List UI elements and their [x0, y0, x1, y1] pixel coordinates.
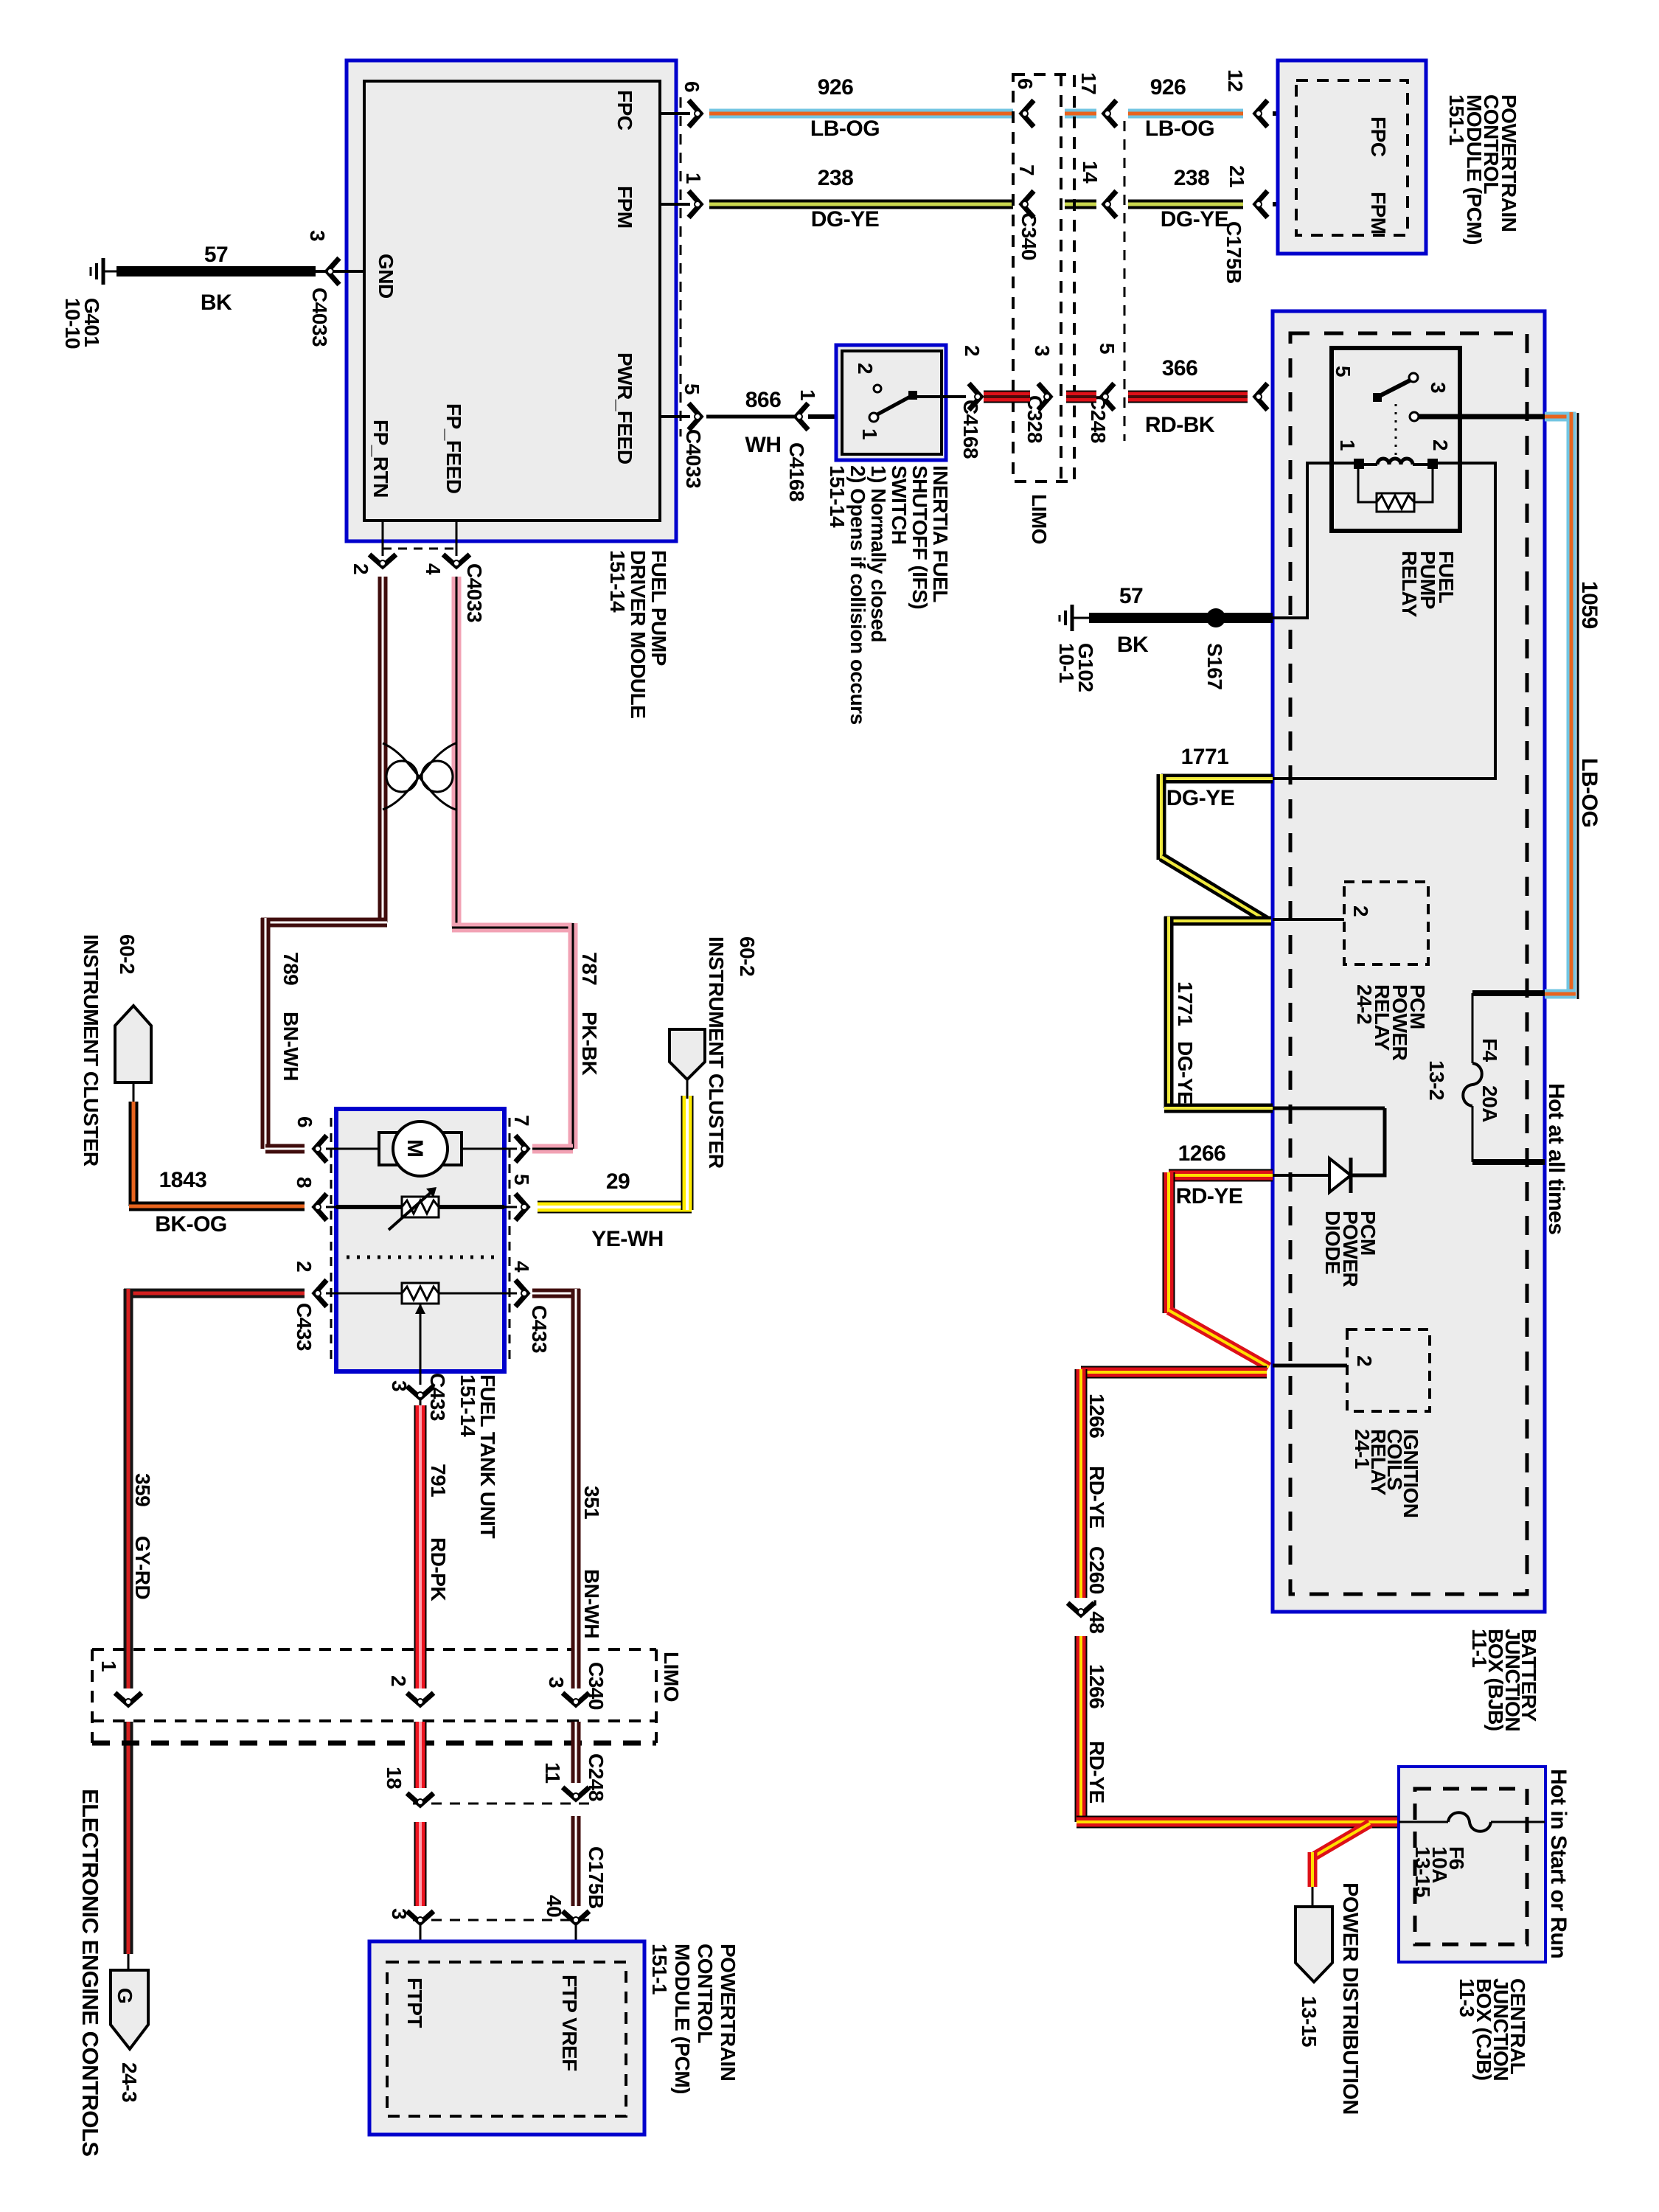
twisted pair symbol [386, 761, 417, 792]
svg-text:4: 4 [510, 1261, 533, 1273]
svg-text:FPM: FPM [1367, 192, 1390, 234]
arrow out of FPC pin 6 [689, 100, 700, 127]
wire 791 stub into PCM [420, 1923, 422, 1964]
svg-text:926: 926 [1150, 75, 1186, 100]
wire 351 horizontal [532, 1289, 580, 1298]
svg-text:Hot in Start or Run: Hot in Start or Run [1546, 1769, 1571, 1958]
svg-text:1: 1 [682, 173, 705, 184]
svg-text:INSTRUMENT CLUSTER: INSTRUMENT CLUSTER [80, 934, 102, 1166]
power distribution off-page connector [1295, 1907, 1332, 1982]
svg-text:57: 57 [1119, 584, 1143, 608]
svg-text:17: 17 [1077, 72, 1100, 94]
wire 791 RD-PK segment 1 [414, 1405, 427, 1688]
arrow at C248 pin 17 (926) [1105, 100, 1116, 127]
wire from relay coil pin2 down [1273, 463, 1495, 779]
C175B mating dashed line (bottom) [413, 1919, 597, 1921]
svg-text:C4033: C4033 [308, 288, 331, 347]
inertia switch inner box [842, 351, 942, 454]
svg-text:RD-PK: RD-PK [427, 1537, 450, 1601]
wire 787 vertical 2 [568, 923, 578, 1149]
arrow 3 C340 (351) [563, 1693, 589, 1705]
svg-text:C4033: C4033 [463, 563, 486, 622]
fuel tank pin 8 arrow [315, 1194, 327, 1220]
arrow 11 C248 (351) [563, 1787, 589, 1799]
wire 926 LB-OG segment 3 [1128, 109, 1243, 119]
svg-text:RD-YE: RD-YE [1085, 1466, 1108, 1528]
fuel pump motor M [393, 1121, 448, 1176]
svg-text:5: 5 [681, 383, 703, 394]
FP_RTN pin wire [382, 521, 384, 556]
svg-text:12: 12 [1224, 69, 1247, 91]
svg-text:C4168: C4168 [785, 442, 808, 501]
relay lever end circle [1409, 373, 1418, 382]
svg-text:13-2: 13-2 [1425, 1060, 1448, 1100]
svg-text:YE-WH: YE-WH [591, 1227, 664, 1251]
svg-text:2: 2 [961, 345, 984, 356]
relay coil [1359, 463, 1377, 466]
wire 1059 LB-OG vertical [1567, 412, 1576, 998]
CJB inner dashed border [1415, 1789, 1527, 1944]
wire 789 corner horizontal [261, 918, 387, 928]
svg-text:INSTRUMENT CLUSTER: INSTRUMENT CLUSTER [705, 936, 728, 1169]
diode anode wire [1273, 1174, 1329, 1177]
switch contact dot [908, 391, 917, 400]
svg-text:6: 6 [293, 1116, 316, 1127]
svg-text:11-3: 11-3 [1455, 1978, 1478, 2017]
wire from arrow to switch [808, 414, 874, 419]
svg-text:60-2: 60-2 [116, 934, 139, 974]
svg-text:FPM: FPM [613, 186, 636, 229]
relay pin 3 circle [1410, 412, 1419, 421]
C433 dashed line right [509, 1118, 511, 1364]
ground G401 symbol [102, 258, 105, 285]
svg-text:C248: C248 [585, 1753, 608, 1801]
wire 1266 horizontal 2 [1081, 1366, 1267, 1379]
LIMO dashed box (bottom) [92, 1649, 656, 1743]
svg-text:PK-BK: PK-BK [578, 1012, 601, 1075]
instrument cluster stem (left) [133, 1082, 135, 1103]
fuel pump motor wire [336, 1148, 504, 1150]
svg-text:5: 5 [510, 1174, 533, 1185]
wire 926 pin stub at FPDM FPC [660, 112, 690, 115]
svg-text:1843: 1843 [159, 1168, 207, 1192]
switch terminal 2 circle [874, 385, 881, 392]
FTP sensor pin 3 wire [420, 1304, 422, 1385]
wire 351 vertical 1 [571, 1289, 581, 1688]
C433 dashed line left [330, 1118, 333, 1364]
svg-text:2: 2 [1353, 1355, 1376, 1366]
C248 mating dashed line [1124, 121, 1126, 441]
svg-text:FPC: FPC [613, 90, 636, 131]
arrow pin 4 C4033 [443, 554, 470, 566]
svg-text:C433: C433 [528, 1305, 551, 1353]
wire 29 YE-WH vertical [681, 1096, 694, 1210]
wire 366 stub in BJB [1273, 396, 1378, 398]
svg-text:1: 1 [1336, 439, 1359, 451]
fuel tank pin 2 arrow [315, 1280, 327, 1307]
instrument cluster off-page connector (right) [669, 1029, 705, 1079]
svg-text:GY-RD: GY-RD [131, 1536, 154, 1599]
arrow 2 C4168 (366) [969, 383, 981, 410]
powertrain control module PCM (bottom) [369, 1941, 644, 2135]
svg-text:DG-YE: DG-YE [1166, 786, 1235, 810]
instrument cluster stem (right) [686, 1078, 689, 1099]
powertrain control module PCM (top) [1278, 60, 1426, 254]
fuse F6 symbol [1399, 1821, 1448, 1823]
FTP sensor wire [336, 1293, 402, 1295]
wire 238 DG-YE segment 3 [1128, 200, 1243, 209]
LIMO dashed box (top) [1013, 74, 1074, 481]
C4033 dashed bracket [383, 548, 456, 550]
svg-text:3: 3 [545, 1677, 568, 1688]
wire 789 vertical 2 [261, 918, 271, 1149]
svg-text:FTPT: FTPT [403, 1978, 426, 2028]
svg-text:1266: 1266 [1178, 1141, 1226, 1166]
wire 866 WH [706, 415, 795, 419]
svg-text:21: 21 [1225, 165, 1248, 187]
wire 926 stub into PCM [1273, 111, 1363, 116]
svg-text:2: 2 [854, 363, 877, 374]
wire 359 vertical 2 [124, 1722, 133, 1954]
wire 791 stub [420, 1398, 422, 1405]
wire 1059 top stub [1545, 412, 1576, 422]
wire 351 vertical 2 [571, 1722, 581, 1783]
arrow 40 C175B (351) [563, 1911, 589, 1923]
arrow 18 C248 (791) [407, 1793, 434, 1805]
svg-text:2: 2 [387, 1675, 410, 1686]
PCM inner dashed border [1296, 80, 1408, 235]
fuel level sender variable resistor [402, 1197, 439, 1217]
svg-text:SWITCH: SWITCH [888, 465, 911, 544]
svg-text:151-14: 151-14 [456, 1374, 479, 1437]
svg-text:151-14: 151-14 [826, 465, 849, 528]
arrow 1 C4168 into switch [796, 403, 808, 430]
svg-text:DG-YE: DG-YE [811, 207, 880, 232]
svg-text:C340: C340 [1018, 212, 1040, 260]
wire 57 BK (left, to FPDM GND) [116, 266, 316, 276]
switch pivot circle [869, 413, 878, 422]
svg-text:Hot at all times: Hot at all times [1544, 1083, 1568, 1234]
relay coil terminal 1 dot [1354, 459, 1364, 469]
connector C4033 dashed line at FPDM right [680, 97, 682, 437]
svg-text:POWER DISTRIBUTION: POWER DISTRIBUTION [1338, 1882, 1362, 2115]
wire RD-YE diagonal to power distribution [1315, 1823, 1370, 1856]
svg-text:PWR_FEED: PWR_FEED [613, 352, 636, 465]
svg-text:DG-YE: DG-YE [1161, 207, 1229, 232]
svg-text:S167: S167 [1203, 643, 1226, 689]
svg-text:787: 787 [578, 952, 601, 985]
PCM power relay dashed box [1344, 882, 1428, 964]
svg-text:8: 8 [293, 1177, 316, 1188]
arrow 2 C340 (791) [407, 1693, 434, 1705]
fuel pump motor brackets [379, 1133, 401, 1165]
wire 1266 horizontal 1 [1169, 1169, 1273, 1182]
wire 787 PK-BK vertical [452, 577, 462, 928]
F4 bottom wire [1472, 1159, 1545, 1165]
svg-text:24-3: 24-3 [118, 2062, 141, 2102]
svg-text:ELECTRONIC ENGINE CONTROLS: ELECTRONIC ENGINE CONTROLS [77, 1789, 103, 2157]
arrow into BJB (366) [1256, 383, 1267, 410]
svg-text:1: 1 [796, 389, 819, 400]
electronic engine controls off-page connector G [111, 1970, 148, 2049]
svg-text:366: 366 [1162, 356, 1198, 380]
svg-text:FP_FEED: FP_FEED [442, 403, 465, 494]
svg-text:6: 6 [681, 81, 703, 92]
svg-text:BN-WH: BN-WH [580, 1569, 603, 1638]
wire 1771 diagonal [1161, 857, 1267, 921]
arrow at C340 pin 6 (926) [1022, 100, 1034, 127]
diode cathode wire [1273, 1108, 1385, 1175]
wire 791 RD-PK segment 2 [414, 1722, 427, 1788]
svg-text:926: 926 [818, 75, 854, 100]
wire 787 to pin 7 [532, 1144, 573, 1154]
svg-text:4: 4 [422, 563, 445, 575]
wire 926 LB-OG segment 1 [709, 109, 1013, 119]
relay coil terminal 2 dot [1427, 459, 1438, 469]
wire 359 stub to G [128, 1954, 130, 1970]
svg-text:2: 2 [1349, 905, 1372, 917]
arrow at C340 pin 7 (238) [1022, 191, 1034, 218]
C340 mating dashed line (bottom) [92, 1719, 656, 1722]
arrow at C248 pin 14 (238) [1105, 191, 1116, 218]
BJB inner dashed border [1290, 333, 1527, 1594]
PCM bottom inner dashed border [387, 1962, 626, 2116]
svg-text:5: 5 [1096, 343, 1119, 354]
svg-text:1: 1 [858, 428, 881, 439]
svg-text:C433: C433 [293, 1303, 316, 1351]
wire 926 LB-OG segment 2 [1065, 109, 1096, 119]
wire 1059 bottom stub [1545, 990, 1576, 999]
switch lever [877, 395, 913, 414]
svg-text:C175B: C175B [585, 1846, 608, 1909]
svg-text:1) Normally closed: 1) Normally closed [867, 465, 890, 642]
arrow into PCM pin 12 (926) [1256, 100, 1267, 127]
svg-text:57: 57 [204, 243, 228, 267]
FP_FEED pin wire [456, 521, 458, 556]
svg-text:60-2: 60-2 [736, 936, 759, 976]
svg-text:FUEL PUMP: FUEL PUMP [647, 550, 670, 666]
arrow 3 C328 (366) [1038, 383, 1050, 410]
relay pin 3 wire [1419, 414, 1545, 420]
svg-text:789: 789 [279, 952, 302, 985]
arrow 3 C175B (791) [407, 1911, 434, 1923]
svg-text:FPC: FPC [1367, 116, 1390, 157]
svg-text:BK: BK [201, 291, 232, 315]
arrow 1 C340 (359) [115, 1693, 142, 1705]
svg-text:M: M [403, 1139, 427, 1158]
svg-text:C175B: C175B [1222, 221, 1245, 284]
svg-text:RD-YE: RD-YE [1176, 1184, 1243, 1208]
svg-text:2) Opens if collision occurs: 2) Opens if collision occurs [846, 465, 869, 725]
svg-text:238: 238 [818, 166, 854, 190]
sender wire (thick) [336, 1205, 402, 1209]
svg-text:11-1: 11-1 [1468, 1629, 1491, 1668]
connector arrow 3 C4033 on GND wire [327, 258, 339, 285]
svg-text:WH: WH [745, 433, 782, 457]
wire 1771 horizontal 3 [1164, 1104, 1273, 1113]
wire 238 pin stub at FPDM FPM [660, 203, 690, 206]
arrow pin 2 C4033 [369, 554, 396, 566]
wire RD-YE vertical to power distribution [1308, 1852, 1318, 1887]
svg-text:151-1: 151-1 [648, 1944, 671, 1994]
svg-text:3: 3 [306, 230, 329, 241]
svg-text:151-1: 151-1 [1445, 94, 1468, 145]
svg-text:1: 1 [97, 1660, 120, 1672]
wire 29 YE-WH horizontal [538, 1201, 692, 1214]
FTP sensor resistor [402, 1283, 439, 1304]
svg-text:7: 7 [1015, 164, 1038, 175]
fuel tank pin 5 arrow [515, 1194, 527, 1220]
svg-text:1771: 1771 [1174, 981, 1197, 1026]
svg-text:POWERTRAIN: POWERTRAIN [717, 1944, 740, 2081]
svg-text:359: 359 [131, 1473, 154, 1506]
wire 1771 vertical 2 [1164, 917, 1174, 1108]
svg-text:1266: 1266 [1085, 1664, 1108, 1708]
FPDM inner box [364, 81, 660, 521]
svg-text:3: 3 [388, 1908, 411, 1919]
svg-text:1266: 1266 [1085, 1394, 1108, 1438]
svg-text:238: 238 [1174, 166, 1210, 190]
fuel tank unit internal dotted divider [347, 1256, 495, 1259]
svg-text:RD-BK: RD-BK [1145, 413, 1215, 437]
svg-text:3: 3 [1031, 345, 1054, 356]
wire 238 DG-YE segment 2 [1065, 200, 1096, 209]
svg-text:C340: C340 [585, 1662, 608, 1710]
svg-text:F4: F4 [1478, 1038, 1501, 1062]
svg-text:LB-OG: LB-OG [810, 116, 880, 141]
svg-text:351: 351 [580, 1486, 603, 1519]
svg-text:18: 18 [383, 1767, 406, 1789]
wire 789 BN-WH vertical [378, 577, 388, 922]
svg-text:7: 7 [510, 1115, 533, 1126]
svg-text:CONTROL: CONTROL [694, 1944, 717, 2043]
svg-text:2: 2 [1429, 439, 1452, 451]
wire 238 stub into PCM [1273, 202, 1363, 206]
fuel tank unit box [336, 1109, 504, 1371]
fuel tank pin 3 arrow [407, 1386, 434, 1398]
svg-text:2: 2 [349, 563, 372, 574]
wire 1771 corner vertical [1157, 774, 1166, 860]
svg-text:14: 14 [1079, 161, 1102, 184]
instrument cluster off-page connector (left) [115, 1006, 151, 1082]
svg-text:LB-OG: LB-OG [1577, 758, 1601, 827]
connector C260-48 arrow [1068, 1603, 1094, 1615]
svg-text:1059: 1059 [1577, 581, 1601, 629]
fuel pump relay box [1332, 348, 1460, 531]
svg-text:SHUTOFF (IFS): SHUTOFF (IFS) [908, 465, 931, 609]
relay resistor links [1358, 463, 1433, 502]
relay resistor box [1377, 493, 1414, 512]
svg-text:5: 5 [1332, 366, 1354, 377]
arrow out of PWR_FEED pin 5 [689, 403, 700, 430]
svg-text:C433: C433 [426, 1373, 449, 1421]
svg-text:29: 29 [606, 1169, 630, 1194]
C340 mating dashed line [1060, 74, 1062, 481]
central junction box CJB [1399, 1767, 1545, 1962]
svg-text:11: 11 [541, 1762, 564, 1784]
PCM power diode symbol [1329, 1158, 1351, 1192]
wire 351 vertical 3 [571, 1816, 581, 1906]
fuse F4 symbol [1472, 993, 1474, 1063]
wire 1266 diagonal [1169, 1310, 1269, 1367]
wire 351 stub into PCM [575, 1923, 577, 1964]
svg-text:LIMO: LIMO [1028, 494, 1051, 544]
inertia switch outer box [836, 345, 946, 460]
wire 1266 vertical [1075, 1369, 1088, 1598]
fuel tank pin 6 arrow [315, 1135, 327, 1162]
svg-text:LIMO: LIMO [660, 1652, 683, 1702]
wire 359 vertical [124, 1289, 133, 1688]
svg-text:RELAY: RELAY [1398, 551, 1421, 618]
wire stub to power distribution pentagon [1312, 1887, 1314, 1907]
svg-text:BK: BK [1117, 633, 1149, 657]
fuel pump driver module FPDM outer box [347, 60, 676, 541]
svg-text:24-2: 24-2 [1353, 984, 1376, 1024]
fuel tank pin 4 arrow [515, 1280, 527, 1307]
F4 top wire [1472, 990, 1545, 996]
wire 787 corner horizontal [452, 923, 573, 933]
svg-text:DRIVER MODULE: DRIVER MODULE [627, 550, 650, 718]
svg-text:10-1: 10-1 [1055, 643, 1078, 683]
arrow out of FPM pin 1 [689, 191, 700, 218]
wire 1771 horizontal 1 [1161, 774, 1273, 784]
svg-text:791: 791 [427, 1464, 450, 1497]
svg-text:13-15: 13-15 [1298, 1996, 1321, 2047]
svg-text:C4033: C4033 [682, 429, 705, 488]
svg-text:DIODE: DIODE [1321, 1211, 1344, 1274]
svg-text:GND: GND [375, 254, 397, 299]
svg-text:20A: 20A [1478, 1085, 1501, 1122]
svg-text:866: 866 [745, 388, 782, 412]
arrow into PCM pin 21 (238) [1256, 191, 1267, 218]
wire 1771 horizontal 2 [1164, 917, 1271, 926]
wire 1266 bottom horizontal [1077, 1816, 1399, 1829]
wire 1266 vertical 2 [1075, 1636, 1088, 1822]
svg-text:13-15: 13-15 [1411, 1846, 1434, 1897]
svg-text:BN-WH: BN-WH [279, 1012, 302, 1081]
wire 1843 BK-OG vertical [129, 1102, 139, 1206]
svg-text:C260 - 48: C260 - 48 [1085, 1546, 1108, 1633]
ignition coils relay pin 2 wire [1273, 1364, 1347, 1368]
battery junction box BJB [1273, 311, 1545, 1612]
svg-text:DG-YE: DG-YE [1174, 1041, 1197, 1105]
relay actuator dotted line [1395, 404, 1397, 456]
wire 238 DG-YE segment 1 [709, 200, 1013, 209]
svg-text:RD-YE: RD-YE [1085, 1741, 1108, 1804]
fuel tank pin 7 arrow [515, 1135, 527, 1162]
svg-text:G: G [114, 1988, 136, 2003]
svg-text:40: 40 [543, 1895, 566, 1917]
arrow 5 C248 (366) [1102, 383, 1114, 410]
svg-text:24-1: 24-1 [1351, 1429, 1374, 1469]
wire 866 stub at PWR_FEED [660, 415, 690, 418]
svg-text:3: 3 [388, 1380, 411, 1391]
svg-text:LB-OG: LB-OG [1145, 116, 1214, 141]
C248 mating dashed line (bottom) [413, 1803, 597, 1805]
svg-text:INERTIA FUEL: INERTIA FUEL [929, 465, 952, 602]
wire 1059 black outline [1577, 413, 1579, 999]
svg-text:151-14: 151-14 [606, 550, 629, 613]
svg-text:MODULE (PCM): MODULE (PCM) [671, 1944, 694, 2094]
wire 359 horizontal [124, 1289, 305, 1298]
svg-text:10-10: 10-10 [61, 298, 84, 349]
ignition coils relay dashed box [1347, 1329, 1430, 1411]
svg-text:1771: 1771 [1181, 745, 1229, 769]
wire 1843 BK-OG horizontal [129, 1202, 305, 1211]
wire 789 to pin 6 [265, 1144, 305, 1154]
relay switch lever [1373, 393, 1382, 402]
svg-text:FTP VREF: FTP VREF [558, 1975, 581, 2071]
